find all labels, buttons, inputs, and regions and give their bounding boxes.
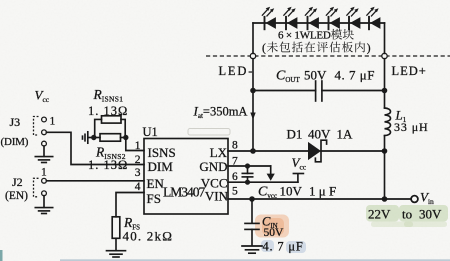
highlight stain over Cin label xyxy=(255,215,289,238)
connector J2 pin 2 xyxy=(42,191,47,196)
svg-text:(: ( xyxy=(262,43,266,55)
connector bubble LED+ on dashed line xyxy=(382,53,387,58)
wire: LED series top rail y=23 xyxy=(253,22,385,24)
op-amp U1 LM3407 body xyxy=(144,139,228,215)
connector bubble LED- on dashed line xyxy=(250,53,255,58)
wire: right rail (dashed to inductor) xyxy=(384,59,386,108)
inductor L1 xyxy=(385,108,391,136)
svg-text:LM3407: LM3407 xyxy=(163,185,206,200)
svg-text:DIM: DIM xyxy=(148,159,174,174)
wire: FS net (U1 pin4 to Rfs) xyxy=(116,193,144,217)
svg-text:1: 1 xyxy=(50,115,56,127)
svg-text:50V: 50V xyxy=(264,227,285,239)
svg-text:22Vto30V: 22Vto30V xyxy=(368,207,442,222)
highlight stain over 4.7uF label xyxy=(261,240,306,253)
svg-text:5: 5 xyxy=(232,186,238,198)
highlight stain over 22V to 30V label xyxy=(366,205,448,227)
svg-text:D140V1A: D140V1A xyxy=(287,127,354,142)
wire: ISNS net (Risns node to U1 pin1) xyxy=(126,138,144,151)
wire: J2 pin2 to ground xyxy=(43,196,45,208)
svg-text:(DIM): (DIM) xyxy=(1,136,29,148)
ground (sideways, at Risns left node) xyxy=(83,132,94,143)
junction: left rail / Cout xyxy=(250,88,256,94)
junction: Risns right node xyxy=(123,135,128,140)
wire: right rail (diode node to Vin node) xyxy=(384,151,386,199)
junction: right rail / D1 xyxy=(382,148,388,154)
LED 2 xyxy=(283,7,297,30)
svg-text:33 μH: 33 μH xyxy=(394,120,429,134)
svg-text:VIN: VIN xyxy=(205,188,229,203)
capacitor Cin xyxy=(245,199,259,246)
ground arrow (GND pin) xyxy=(267,174,275,181)
LED 5 xyxy=(346,7,360,30)
connector J2 pin 1 xyxy=(42,178,47,183)
svg-text:ISNS: ISNS xyxy=(148,145,176,160)
wire: pin 7 GND stub xyxy=(228,165,271,167)
connector J3 pin 2 xyxy=(42,130,47,135)
ground (J2) xyxy=(35,208,52,214)
resistor Risns2 (bottom of parallel pair) xyxy=(94,134,127,142)
scan edge artifact bottom xyxy=(60,259,450,261)
LED 1 xyxy=(262,7,276,30)
svg-text:LX: LX xyxy=(210,145,228,160)
svg-text:40. 2kΩ: 40. 2kΩ xyxy=(123,228,174,243)
Vcc supply tap xyxy=(293,174,303,183)
connector J3 pin 1 xyxy=(42,117,47,122)
svg-text:6: 6 xyxy=(232,171,238,183)
connector J2 dashed bracket xyxy=(34,178,39,197)
connector J3 pin 3 xyxy=(42,141,47,146)
wire: diode cathode to right rail xyxy=(321,150,385,152)
wire: EN net (J2 pin1 to U1 pin3) xyxy=(46,180,144,182)
resistor Risns1 (top of parallel pair) xyxy=(95,116,126,138)
wire: right rail (inductor to diode node) xyxy=(384,136,386,151)
wire: pin 5 VIN line to input terminal xyxy=(228,198,411,200)
arrow: output current direction xyxy=(250,113,255,120)
svg-text:8: 8 xyxy=(232,140,238,152)
wire: Rfs to ground xyxy=(115,238,117,250)
terminal Vin xyxy=(411,196,418,203)
ground (below Cin) xyxy=(242,246,262,253)
svg-text:1: 1 xyxy=(41,166,47,178)
svg-text:1. 13Ω: 1. 13Ω xyxy=(88,158,128,172)
wire: right rail top (LED+ to dashed line) xyxy=(384,23,386,53)
junction: VIN / Cin xyxy=(249,196,255,202)
svg-text:LED-: LED- xyxy=(219,64,255,78)
LED 4 xyxy=(326,7,340,30)
ground (J3) xyxy=(35,157,52,163)
dashed LED module boundary line xyxy=(206,55,450,57)
wire: J3 pin3 to ground xyxy=(43,146,45,156)
wire: pin 8 LX to diode anode xyxy=(228,150,308,152)
junction: GND stub / Cvcc xyxy=(245,163,250,168)
ground (Rfs) xyxy=(107,251,126,257)
wire: left rail (dashed line down to LX node) xyxy=(252,59,254,151)
wire: left rail upper segment (LED- to dashed line) xyxy=(252,23,254,53)
LED 3 xyxy=(305,7,319,30)
svg-text:6 × 1WLED: 6 × 1WLED xyxy=(278,30,331,42)
junction: right rail / Vin xyxy=(382,196,388,202)
junction: Risns left node xyxy=(91,135,96,140)
capacitor Cout xyxy=(253,81,385,101)
svg-text:): ) xyxy=(367,43,371,55)
wire: DIM net (J3 pin2 to U1 pin2) xyxy=(46,132,144,164)
diode D1 (Schottky) xyxy=(308,140,327,162)
connector J3 dashed bracket xyxy=(34,117,39,136)
svg-text:FS: FS xyxy=(147,191,161,206)
svg-text:J3: J3 xyxy=(10,115,21,129)
svg-text:(EN): (EN) xyxy=(5,190,28,202)
junction: right rail / Cout xyxy=(382,88,388,94)
resistor Rfs xyxy=(112,217,120,239)
svg-text:LED+: LED+ xyxy=(392,64,427,78)
scan edge artifact bottom-left corner xyxy=(0,250,3,261)
svg-text:J2: J2 xyxy=(12,175,23,189)
wire: GND drop to arrow xyxy=(270,166,272,174)
svg-text:4: 4 xyxy=(135,181,141,193)
LED 6 xyxy=(366,7,380,30)
faint eraser box artifact left of Iat label xyxy=(188,129,230,136)
junction: VCC stub / Cvcc xyxy=(245,180,250,185)
svg-text:GND: GND xyxy=(199,159,227,174)
svg-text:EN: EN xyxy=(147,176,165,191)
svg-text:4. 7 μF: 4. 7 μF xyxy=(263,239,304,253)
svg-text:3: 3 xyxy=(135,167,141,179)
junction: LX / left rail xyxy=(250,148,256,154)
wire: pin 6 VCC stub xyxy=(228,181,298,183)
capacitor C (between GND and VCC pins) xyxy=(242,166,252,182)
svg-text:U1: U1 xyxy=(143,125,158,139)
